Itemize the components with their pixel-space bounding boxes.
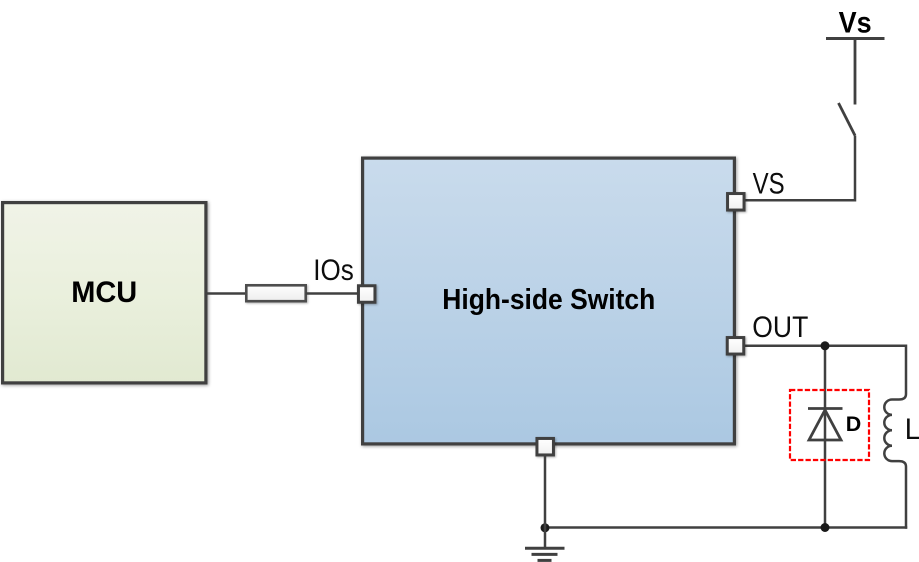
- wire bottom ground bus: [545, 526, 907, 529]
- switch SW1 fixed lead to Vs: [854, 39, 857, 105]
- wire resistor to IOs pin: [306, 292, 359, 295]
- svg-text:IOs: IOs: [313, 254, 354, 287]
- wire MCU to resistor: [205, 292, 247, 295]
- wire GND pin down: [544, 455, 547, 549]
- svg-text:Vs: Vs: [839, 6, 872, 39]
- diode D cathode bar: [808, 407, 843, 410]
- svg-text:L: L: [905, 413, 919, 446]
- wire OUT pin to node A and inductor branch: [745, 345, 906, 348]
- ground symbol: [525, 548, 565, 560]
- svg-text:VS: VS: [753, 168, 785, 201]
- inductor L: [884, 345, 906, 529]
- red dashed highlight box around diode: [790, 390, 869, 460]
- High-side Switch block U1: [363, 158, 735, 444]
- svg-text:D: D: [846, 413, 862, 436]
- pin OUT: [727, 338, 744, 355]
- supply Vs bar: [826, 37, 885, 40]
- resistor R1: [246, 285, 305, 301]
- junction dot ground: [541, 523, 550, 532]
- MCU block: [3, 203, 206, 383]
- diode D triangle: [809, 410, 841, 440]
- svg-text:OUT: OUT: [752, 311, 808, 344]
- pin VS: [728, 194, 745, 211]
- switch SW1 blade: [839, 103, 856, 136]
- node A junction dot at OUT: [821, 341, 830, 350]
- junction dot diode bottom: [821, 523, 830, 532]
- wire VS pin to switch SW1: [745, 136, 855, 201]
- pin IOs: [358, 286, 375, 303]
- svg-text:High-side Switch: High-side Switch: [442, 284, 655, 316]
- pin GND bottom: [537, 438, 554, 455]
- wire diode branch vertical: [824, 346, 827, 528]
- svg-text:MCU: MCU: [71, 276, 137, 309]
